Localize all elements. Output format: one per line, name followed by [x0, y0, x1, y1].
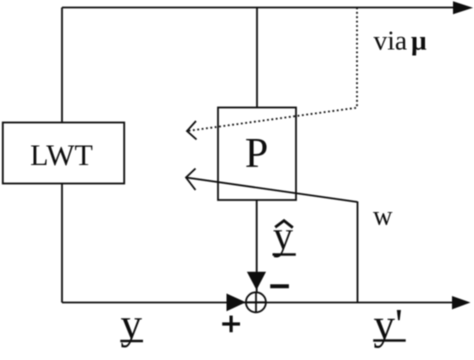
svg-text:w: w	[373, 201, 393, 231]
svg-text:LWT: LWT	[30, 139, 93, 172]
svg-text:via μ: via μ	[374, 25, 427, 56]
svg-text:P: P	[245, 131, 268, 177]
